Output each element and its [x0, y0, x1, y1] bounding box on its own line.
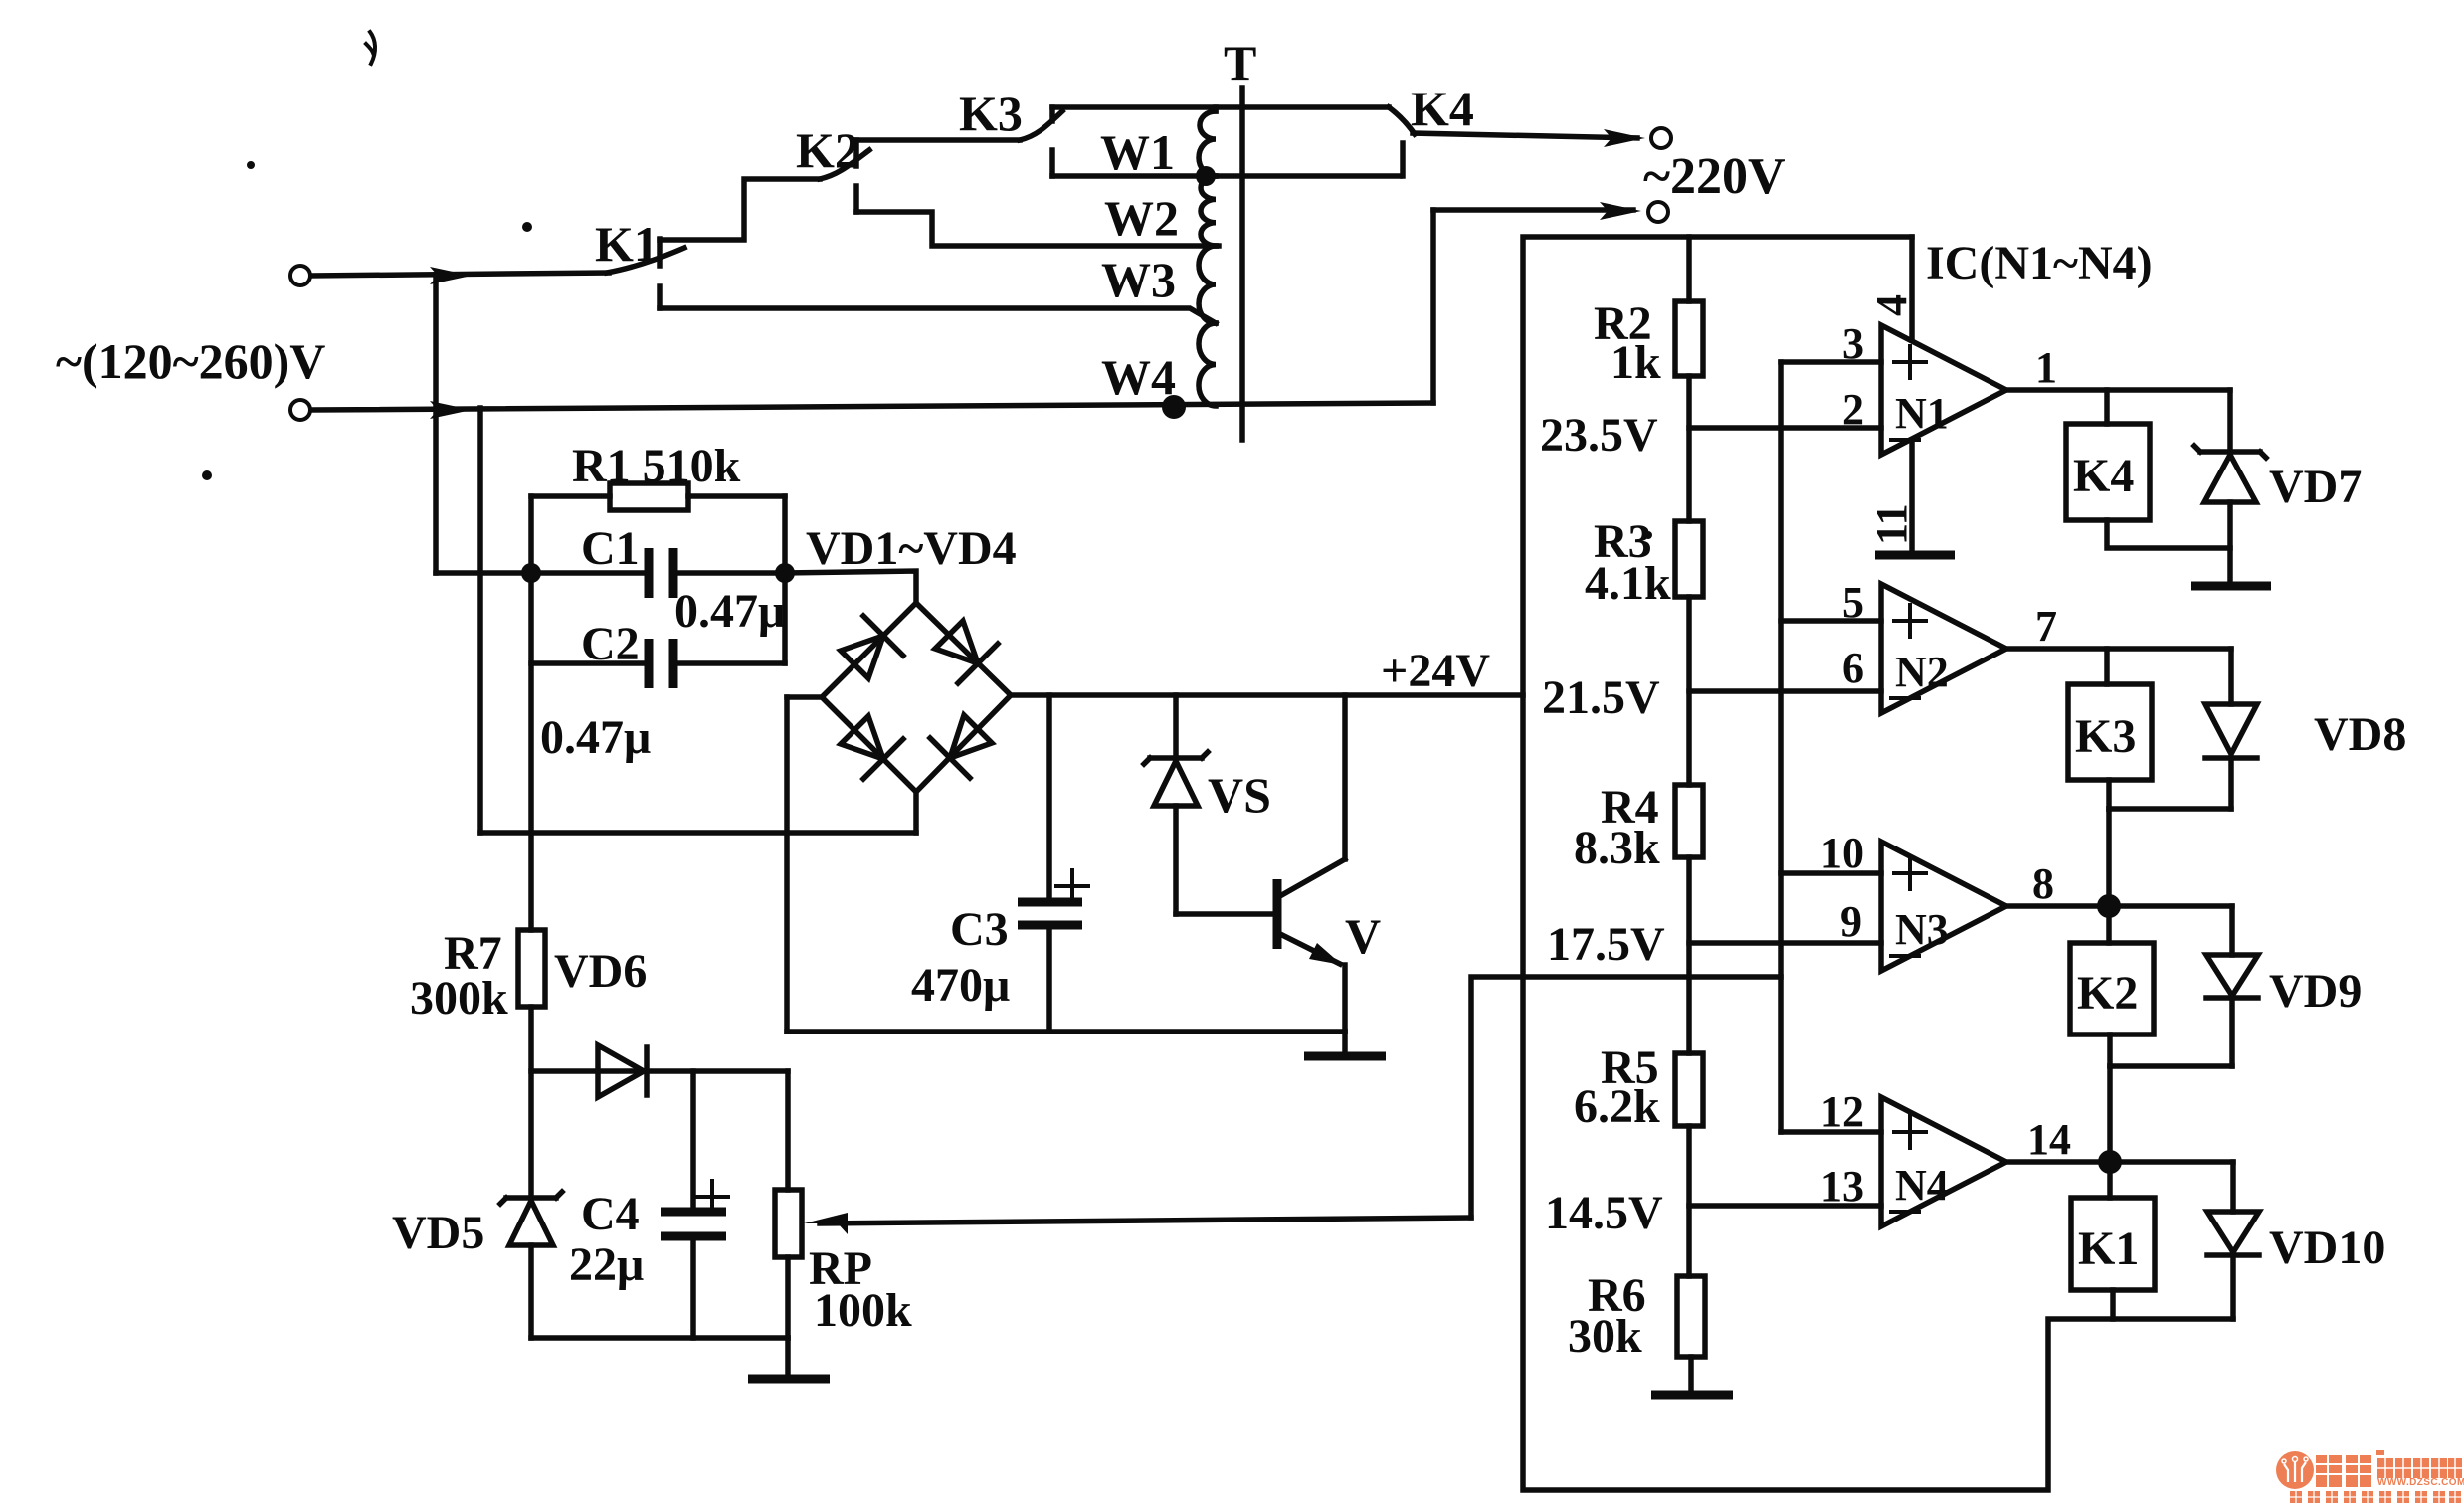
svg-text:K1: K1	[2078, 1222, 2139, 1275]
ground divider	[1651, 1391, 1733, 1400]
relay K3	[2068, 649, 2152, 809]
wire AC2 into bridge bottom	[480, 792, 916, 833]
svg-text:VD1~VD4: VD1~VD4	[806, 522, 1017, 575]
svg-text:W1: W1	[1100, 124, 1175, 180]
svg-text:8: 8	[2032, 859, 2054, 908]
node 23.5V tap	[1689, 425, 1881, 431]
op-amp N4	[1881, 1097, 2006, 1226]
diode VD9	[2206, 906, 2258, 1066]
relay K1	[2071, 1162, 2155, 1319]
wire pin5	[1781, 618, 1881, 624]
svg-text:6.2k: 6.2k	[1574, 1080, 1660, 1133]
svg-text:+24V: +24V	[1381, 645, 1490, 697]
svg-text:K3: K3	[959, 86, 1023, 141]
pin11 ground lead	[1875, 440, 1955, 555]
wire pin3	[1781, 359, 1881, 365]
bridge rectifier VD1~VD4 diamond	[822, 603, 1011, 792]
resistor R6	[1677, 1276, 1705, 1393]
svg-text:13: 13	[1820, 1162, 1864, 1211]
op-amp N2	[1881, 584, 2006, 713]
transformer winding W3	[1199, 246, 1216, 323]
svg-text:W3: W3	[1101, 252, 1176, 307]
wire branch L down	[433, 275, 439, 573]
wire K2 VD9 join to node 14	[2110, 1066, 2232, 1162]
svg-text:23.5V: 23.5V	[1540, 409, 1658, 462]
svg-text:K1: K1	[595, 216, 659, 272]
switch K4	[1389, 107, 1415, 176]
svg-text:9: 9	[1840, 897, 1862, 946]
bridge diode upper-right	[935, 621, 998, 683]
transformer winding W1	[1199, 107, 1216, 176]
op-amp N3	[1881, 842, 2006, 971]
wire K1 lower to W3 tap	[660, 308, 1216, 323]
wire dropper right column	[782, 496, 788, 663]
svg-text:K4: K4	[1411, 81, 1474, 136]
svg-text:4.1k: 4.1k	[1585, 557, 1671, 610]
resistor R4	[1675, 785, 1703, 1053]
capacitor C1	[531, 548, 785, 598]
svg-text:~(120~260)V: ~(120~260)V	[56, 333, 325, 389]
IC supply box outline	[1523, 237, 2233, 1490]
svg-text:C3: C3	[950, 903, 1009, 956]
svg-text:30k: 30k	[1568, 1310, 1642, 1363]
svg-text:10: 10	[1820, 829, 1864, 877]
capacitor C2	[531, 639, 785, 688]
ground RP	[748, 1338, 830, 1379]
resistor R3	[1675, 521, 1703, 785]
node dropper left	[521, 563, 541, 583]
svg-text:7: 7	[2035, 602, 2057, 651]
op-amp N1	[1881, 325, 2006, 455]
wire bridge minus stub	[787, 694, 822, 700]
wire bottom rail VD5-C4-RP	[531, 1335, 788, 1341]
resistor R2	[1675, 237, 1703, 521]
svg-text:N2: N2	[1895, 648, 1949, 696]
pin4 supply lead	[1909, 237, 1915, 340]
svg-text:2: 2	[1842, 385, 1864, 434]
svg-text:W2: W2	[1104, 190, 1179, 246]
svg-text:N4: N4	[1895, 1161, 1949, 1210]
diode VD7	[2194, 390, 2266, 584]
svg-text:0.47μ: 0.47μ	[674, 585, 785, 638]
svg-text:N3: N3	[1895, 905, 1949, 954]
capacitor C4	[661, 1071, 728, 1338]
svg-text:300k: 300k	[410, 972, 508, 1025]
watermark logo circle	[2276, 1451, 2314, 1489]
svg-text:1k: 1k	[1611, 336, 1661, 389]
svg-text:100k: 100k	[814, 1284, 912, 1337]
wire K2 contact to K3 pole	[856, 137, 1020, 143]
svg-text:R1 510k: R1 510k	[572, 440, 741, 492]
svg-text:VD9: VD9	[2269, 965, 2362, 1018]
wire pin12	[1781, 1129, 1881, 1135]
bridge diode lower-left	[841, 716, 903, 779]
wire bottom minus rail	[787, 1029, 1345, 1034]
svg-text:K2: K2	[796, 122, 859, 178]
zener VD5	[500, 1192, 562, 1338]
resistor R7	[518, 930, 545, 1198]
wire output 1	[2006, 387, 2230, 393]
input terminal upper	[290, 266, 609, 285]
potentiometer RP	[775, 1190, 1471, 1338]
wire W1 top line	[1052, 104, 1389, 110]
resistor R5	[1675, 1053, 1703, 1276]
svg-text:5: 5	[1842, 578, 1864, 627]
svg-text:VD7: VD7	[2269, 461, 2362, 513]
svg-text:VD8: VD8	[2314, 708, 2406, 761]
node 17.5V tap	[1689, 940, 1881, 946]
bridge diode lower-right	[930, 715, 992, 778]
diode VD8	[2205, 649, 2257, 809]
svg-text:3: 3	[1842, 319, 1864, 368]
svg-text:4: 4	[1867, 294, 1916, 316]
svg-text:11: 11	[1867, 503, 1916, 545]
capacitor C3	[1018, 695, 1088, 1032]
watermark title blocks	[2316, 1450, 2462, 1487]
svg-text:1: 1	[2035, 343, 2057, 392]
node 14	[2098, 1150, 2122, 1174]
watermark bottom row	[2290, 1491, 2461, 1503]
node 14.5V tap	[1689, 1203, 1881, 1209]
wire dropper left column	[528, 496, 534, 930]
diode VD6	[531, 1045, 788, 1097]
wire K2 lower to W2 tap	[856, 212, 1219, 246]
relay K2	[2070, 906, 2154, 1066]
svg-text:VD5: VD5	[392, 1207, 484, 1259]
transformer winding W4	[1199, 323, 1216, 406]
svg-text:22μ: 22μ	[569, 1238, 644, 1291]
svg-text:~220V: ~220V	[1643, 148, 1786, 205]
stray mark top	[366, 32, 375, 64]
svg-text:N1: N1	[1895, 389, 1949, 438]
transistor V	[1277, 695, 1345, 1032]
ground VD7	[2191, 582, 2271, 591]
svg-text:V: V	[1345, 908, 1381, 964]
wire C1 row to bridge AC1	[785, 571, 916, 603]
svg-text:14.5V: 14.5V	[1545, 1187, 1663, 1239]
wire N line to transformer bottom	[311, 403, 1433, 410]
stray dots	[202, 161, 1652, 539]
wire output 8	[2006, 903, 2232, 909]
wire VS to base	[1176, 911, 1274, 917]
relay K4	[2066, 390, 2230, 548]
output terminal 2 and wire	[1433, 202, 1668, 403]
wire feedback sample	[1471, 977, 1781, 1218]
node 21.5V tap	[1689, 688, 1881, 694]
wire output 14	[2006, 1159, 2233, 1165]
resistor R1	[531, 483, 785, 510]
wire branch N down	[477, 408, 483, 833]
svg-text:T: T	[1224, 35, 1256, 91]
transformer T core	[1239, 88, 1245, 440]
svg-text:K3: K3	[2075, 710, 2136, 763]
svg-text:12: 12	[1820, 1087, 1864, 1136]
svg-text:470μ: 470μ	[911, 959, 1010, 1012]
svg-text:VD6: VD6	[554, 945, 647, 998]
ground emitter	[1304, 1032, 1386, 1056]
svg-text:8.3k: 8.3k	[1574, 822, 1660, 874]
wire K1 to K2 step	[660, 179, 820, 240]
wire output 7	[2006, 646, 2231, 652]
input terminal lower	[290, 400, 472, 420]
wire K3 VD8 join to node 8	[2109, 809, 2231, 906]
svg-text:17.5V: 17.5V	[1547, 918, 1665, 971]
svg-text:VD10: VD10	[2269, 1222, 2385, 1274]
svg-text:6: 6	[1842, 644, 1864, 692]
node W1-W2 junction	[1196, 166, 1216, 186]
node W4 bottom junction	[1162, 395, 1186, 419]
node 8	[2097, 894, 2121, 918]
bridge diode upper-left	[841, 616, 903, 678]
wire VD6 to RP	[785, 1071, 791, 1190]
wire +24V rail	[1011, 692, 1523, 698]
svg-text:21.5V: 21.5V	[1542, 671, 1660, 724]
diode VD10	[2207, 1162, 2259, 1319]
svg-text:K4: K4	[2073, 450, 2134, 502]
svg-text:WWW.DZSC.COM: WWW.DZSC.COM	[2377, 1477, 2464, 1488]
wire pin10	[1781, 870, 1881, 876]
svg-text:C1: C1	[581, 522, 640, 575]
svg-text:0.47μ: 0.47μ	[540, 711, 651, 764]
switch K3	[1020, 107, 1062, 176]
svg-text:W4: W4	[1101, 349, 1176, 405]
wire L into C1 row	[436, 570, 531, 576]
wire plus input column	[1778, 362, 1784, 1132]
wire bridge minus down	[784, 697, 790, 1032]
wire W1-W2 tap line	[1052, 173, 1400, 179]
node dropper right	[775, 563, 795, 583]
switch K1	[607, 239, 684, 308]
svg-text:IC(N1~N4): IC(N1~N4)	[1926, 237, 2153, 289]
svg-text:C2: C2	[581, 618, 640, 670]
switch K2	[820, 140, 869, 212]
transformer winding W2	[1201, 176, 1216, 246]
zener VS	[1144, 695, 1208, 914]
svg-text:K2: K2	[2077, 967, 2138, 1020]
wire K4 to output terminal 1	[1413, 128, 1671, 148]
svg-text:14: 14	[2027, 1115, 2071, 1164]
svg-text:VS: VS	[1208, 767, 1271, 823]
svg-text:C4: C4	[581, 1188, 640, 1240]
